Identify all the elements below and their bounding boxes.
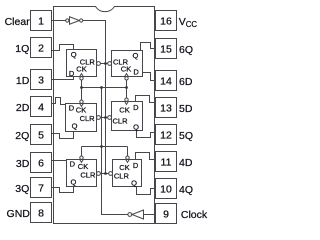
svg-text:14: 14 [160,76,172,88]
svg-text:D: D [70,160,76,169]
svg-text:10: 10 [160,184,172,196]
FF2 clock wedge [125,74,129,77]
inverter U1 triangle [70,17,80,25]
svg-text:D: D [133,103,139,112]
wire pin7 3Q [52,187,74,193]
svg-text:Q: Q [133,123,139,132]
FF3 clock bubble [80,100,83,103]
inverter U2 triangle [132,210,144,219]
wire pin13 5D [136,96,156,103]
svg-text:D: D [69,69,75,78]
svg-text:Q: Q [71,178,77,187]
svg-text:5D: 5D [179,103,193,115]
svg-text:11: 11 [161,157,172,169]
svg-text:4Q: 4Q [179,184,193,196]
svg-text:CLR: CLR [113,117,129,126]
svg-text:15: 15 [160,44,172,56]
pin 16 box [156,11,177,31]
pin 2 box [31,38,52,58]
wire clock bus row3 [82,147,128,157]
svg-text:Q: Q [131,179,137,188]
wire pin15 6Q [141,43,156,51]
flip-flop FF5 box [67,160,97,187]
flip-flop FF1 box [67,50,97,77]
pin 13 box [156,98,177,118]
flip-flop FF4 box [112,102,143,131]
svg-text:5Q: 5Q [179,130,193,142]
svg-text:D: D [69,103,75,112]
svg-text:8: 8 [38,208,44,220]
FF5 clear bubble [97,172,101,176]
svg-text:1Q: 1Q [15,43,29,55]
wire pin6 3D [52,160,67,162]
inverter U1 output bubble [80,19,83,22]
svg-text:CLR: CLR [114,172,130,181]
svg-text:CK: CK [119,105,129,114]
svg-text:5: 5 [38,130,44,142]
svg-text:2D: 2D [16,102,30,114]
svg-text:1: 1 [38,16,44,28]
pin 9 box [156,204,177,224]
node clear junction row2 [104,116,107,119]
svg-text:6D: 6D [179,76,193,88]
svg-text:CK: CK [121,65,131,74]
wire clock bus row1 [82,80,127,100]
FF1 clock bubble [80,77,83,80]
pin 5 box [31,125,52,145]
wire clock net vertical [102,88,128,215]
wire pin14 6D [143,73,156,81]
wire pin3 1D [52,77,74,80]
FF6 clear bubble [109,172,113,176]
FF4 clock wedge [125,102,129,105]
pin 15 box [156,39,177,59]
svg-text:3D: 3D [16,158,30,170]
svg-text:CK: CK [76,65,86,74]
svg-text:2: 2 [38,43,44,55]
svg-text:6Q: 6Q [179,44,193,56]
FF4 clock bubble [125,98,128,101]
FF6 clock wedge [126,160,130,163]
inverter U2 output bubble [128,213,132,217]
wire clear stub row2 [97,117,112,119]
wire pin2 1Q [52,45,74,51]
node clock junction row1 mid [100,86,103,89]
svg-text:VCC: VCC [179,16,198,29]
pin 7 box [31,178,52,198]
svg-text:Q: Q [71,50,77,59]
node clock junction row1 right [125,86,128,89]
svg-text:3Q: 3Q [15,183,29,195]
inverter U1 input bubble [66,19,69,22]
wire pin10 4Q [137,187,156,195]
FF1 clear bubble [97,62,101,66]
wire clear stub row1 [97,63,112,65]
FF2 clock bubble [125,77,128,80]
svg-text:4: 4 [38,102,44,114]
FF3 clock wedge [80,104,84,107]
wire pin12 5Q [137,131,156,138]
flip-flop FF2 box [112,51,143,77]
svg-text:12: 12 [160,130,172,142]
svg-text:16: 16 [160,16,172,28]
svg-text:Clear: Clear [5,16,31,28]
FF5 clock bubble [80,156,83,159]
pin 1 box [31,11,52,31]
pin 12 box [156,125,177,145]
node clear junction row1 [104,62,107,65]
pin 14 box [156,71,177,91]
svg-text:Clock: Clock [181,209,208,221]
svg-text:9: 9 [163,209,169,221]
wire pin9 to inverter [144,214,156,216]
pin 11 box [156,152,177,172]
svg-text:Q: Q [72,122,78,131]
svg-text:1D: 1D [16,75,30,87]
svg-text:D: D [133,161,139,170]
pin 4 box [31,97,52,117]
wire pin11 4D [136,153,156,160]
svg-text:GND: GND [7,208,31,220]
svg-text:7: 7 [38,183,44,195]
svg-text:D: D [133,68,139,77]
pin 6 box [31,153,52,173]
pin 3 box [31,70,52,90]
svg-text:13: 13 [160,103,172,115]
wire clear stub row3 [97,173,113,175]
wire pin4 2D [52,98,66,105]
node clear junction row3 [104,172,107,175]
FF1 clock wedge [80,74,84,77]
wire pin1 to inverter [52,20,66,22]
flip-flop FF3 box [66,104,97,132]
svg-text:CLR: CLR [80,114,96,123]
wire clear net [83,21,106,174]
FF5 clock wedge [80,160,84,163]
svg-text:Q: Q [133,51,139,60]
svg-text:3: 3 [38,75,44,87]
svg-text:4D: 4D [179,157,193,169]
node clock junction row3 [100,145,103,148]
svg-text:6: 6 [38,158,44,170]
IC body outline with notch [54,7,155,224]
FF2 clear bubble [108,62,112,66]
pin 8 box [31,203,52,223]
FF4 clear bubble [108,116,112,120]
pin 10 box [156,179,177,199]
FF6 clock bubble [126,156,129,159]
FF3 clear bubble [97,116,101,120]
wire pin5 2Q [52,132,74,139]
node clock junction row1 left [80,86,83,89]
svg-text:2Q: 2Q [15,130,29,142]
svg-text:CLR: CLR [80,170,96,179]
flip-flop FF6 box [113,160,142,187]
